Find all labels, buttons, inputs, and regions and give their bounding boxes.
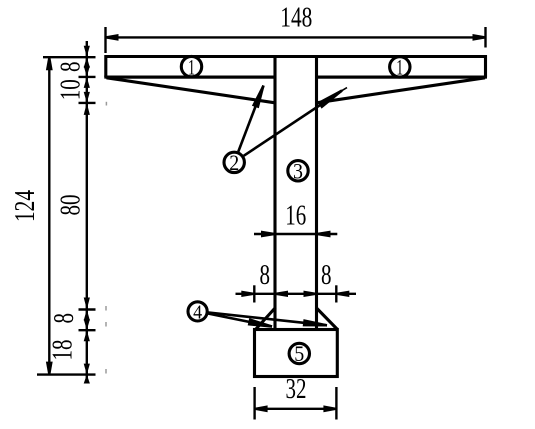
leader 4a line	[207, 313, 272, 326]
svg-text:80: 80	[54, 195, 86, 216]
dimension 16 left arrow	[261, 231, 275, 238]
svg-text:18: 18	[47, 340, 79, 361]
web right line	[315, 57, 318, 330]
svg-text:32: 32	[286, 373, 307, 405]
svg-text:10: 10	[54, 79, 86, 100]
dimension 8-8 right extension tick	[335, 285, 337, 302]
chain arrows at y 374.6	[84, 364, 90, 375]
chain tick at flange bottom	[79, 76, 96, 78]
right haunch line	[317, 78, 486, 103]
dimension 148 left arrow	[106, 34, 119, 41]
svg-text:2: 2	[229, 150, 239, 175]
svg-text:4: 4	[193, 301, 202, 323]
bottom block outline	[255, 330, 338, 377]
leader 2b barb	[332, 88, 347, 97]
chain arrows at y 309.5	[84, 298, 90, 310]
dimension 8-8 left extension tick	[253, 285, 255, 302]
callout circle 5	[289, 343, 309, 363]
svg-text:124: 124	[9, 190, 41, 222]
leader 2b arrow	[317, 90, 342, 109]
chain tick at haunch bottom	[79, 102, 96, 104]
dimension 32 left extension tick	[253, 387, 255, 420]
dimension 8-8 line	[236, 293, 357, 295]
dim 8-8 arrow at web left	[275, 291, 288, 297]
chain tick at chamfer top	[79, 308, 96, 310]
svg-text:8: 8	[48, 313, 80, 324]
web left line	[273, 57, 276, 330]
dimension 32 right extension tick	[335, 387, 337, 420]
callout circle 1 right	[390, 57, 410, 77]
chain arrows at y 330.2	[84, 319, 90, 330]
svg-text:8: 8	[321, 259, 332, 291]
extension line remnant near block top	[105, 322, 107, 327]
chain arrows at y 76.9	[84, 66, 90, 77]
dimension 148 right extension tick	[484, 27, 486, 48]
flange bottom left segment	[104, 76, 275, 79]
svg-text:8: 8	[54, 62, 86, 73]
extension line remnant near chamfer top	[105, 306, 107, 311]
svg-text:3: 3	[293, 159, 303, 184]
leader 2a arrow	[252, 85, 265, 108]
left chain dimension line	[86, 41, 88, 384]
svg-text:16: 16	[285, 200, 306, 232]
dimension 124 line	[48, 57, 50, 374]
dim 8-8 arrow at web right	[304, 291, 317, 297]
leader 4b arrow	[303, 319, 327, 326]
dim 8-8 arrow outside left	[241, 291, 254, 297]
svg-text:8: 8	[260, 259, 271, 291]
right chamfer line	[316, 308, 338, 330]
left chamfer line	[256, 308, 276, 330]
extension line remnant near block bottom	[105, 369, 107, 374]
dimension 16 line	[254, 233, 337, 235]
leader 4a arrow	[248, 318, 273, 328]
svg-text:1: 1	[188, 54, 195, 79]
callout circle 2	[224, 152, 244, 172]
dimension 32 right arrow	[323, 405, 336, 412]
callout circle 1 left	[181, 56, 201, 76]
leader 2b line	[244, 91, 342, 156]
svg-text:148: 148	[280, 2, 312, 34]
dimension 148 right arrow	[473, 34, 486, 41]
dimension 32 left arrow	[255, 405, 268, 412]
svg-text:1: 1	[396, 55, 403, 80]
top flange outline (bottom edge open at web)	[106, 57, 486, 78]
bottom extension line	[37, 373, 96, 375]
dimension 32 line	[255, 408, 337, 410]
dimension 148 line	[106, 36, 486, 38]
top extension line at flange top	[43, 56, 96, 58]
chain tick at block top	[79, 329, 96, 331]
callout circle 4	[188, 302, 207, 321]
svg-text:5: 5	[294, 341, 304, 366]
chain arrows at y 56.8	[84, 46, 90, 57]
leader 2a line	[238, 86, 263, 152]
chain arrows at y 102.9	[84, 92, 90, 103]
dimension 124 bottom arrow	[46, 362, 53, 375]
callout circle 3	[288, 161, 308, 181]
dim 8-8 arrow outside right	[336, 291, 349, 297]
dimension 16 right arrow	[317, 231, 331, 238]
flange bottom right segment	[317, 76, 488, 79]
leader 4b line	[208, 312, 328, 325]
extension line remnant near haunch bottom	[105, 102, 107, 106]
left haunch line	[107, 78, 276, 103]
dimension 124 top arrow	[46, 57, 53, 70]
dimension 148 left extension tick	[104, 27, 106, 53]
